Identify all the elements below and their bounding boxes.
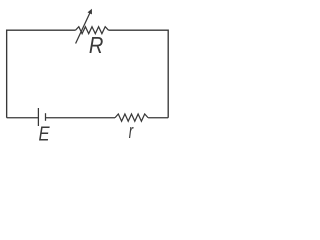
- resistor R wiper arrow shaft: [76, 11, 91, 43]
- wire: bottom-right segment: [148, 117, 168, 119]
- svg-text:R: R: [89, 33, 103, 58]
- resistor r (internal resistance) zigzag body: [115, 114, 148, 121]
- battery cell E positive (long) plate: [37, 108, 39, 126]
- wire: bottom segment between battery E and resistor r: [46, 117, 116, 119]
- resistor R wiper arrowhead: [88, 9, 92, 15]
- wire: bottom-left segment: [7, 117, 39, 119]
- wire: left side and top-left segment: [7, 30, 76, 118]
- battery cell E negative (short) plate: [45, 113, 47, 121]
- resistor R (variable rheostat) zigzag body: [76, 27, 109, 34]
- svg-text:r: r: [129, 120, 134, 143]
- wire: top-right segment and right side: [109, 30, 169, 118]
- svg-text:E: E: [39, 122, 51, 145]
